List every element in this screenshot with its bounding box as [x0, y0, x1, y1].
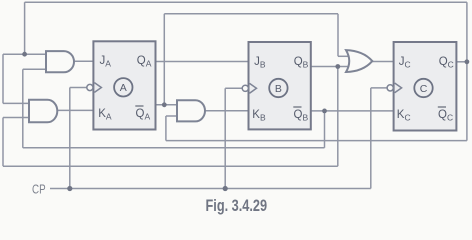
wire Qc right vertical [466, 2, 468, 140]
wire clock B vertical [224, 88, 226, 188]
clock triangle C [395, 83, 402, 93]
clock bubble C [387, 85, 393, 91]
svg-text:C: C [420, 83, 428, 95]
wire AND3 in2 vertical [165, 116, 167, 141]
wire AND2 out to KA [57, 109, 94, 111]
overbar QbarB [293, 106, 301, 108]
overbar QbarA [135, 105, 143, 107]
overbar QbarC [438, 106, 446, 108]
junction node CP-B [223, 186, 228, 191]
wire AND1 in2 vertical [22, 69, 24, 148]
junction node QbarA [162, 102, 167, 107]
svg-text:B: B [275, 83, 282, 95]
wire QbarA up vertical [163, 14, 165, 105]
junction node QB [335, 64, 340, 69]
wire bus166 (QB to AND2 in2) [3, 165, 338, 167]
wire QA to JB [156, 61, 249, 63]
wire node to left edge [3, 53, 25, 55]
wire QbarB to KC [311, 110, 394, 112]
wire clock A vertical [69, 88, 71, 189]
clock triangle B [250, 83, 257, 93]
wire QB down vertical [337, 67, 339, 167]
junction node CP-A [67, 186, 72, 191]
clock bubble A [87, 84, 93, 90]
state circle B [269, 79, 287, 97]
wire top-left vertical to node [24, 2, 26, 54]
wire left edge vertical upper [2, 54, 4, 103]
flip-flop C box [394, 42, 457, 131]
flip-flop A box [93, 41, 155, 129]
junction node QC [465, 59, 470, 64]
wire H1 bus (Qc to AND3 in2) [166, 140, 467, 142]
wire OR in1 vertical [337, 14, 339, 57]
wire AND1 in1 stub [25, 53, 46, 55]
svg-text:CP: CP [32, 182, 46, 197]
state circle A [114, 78, 132, 96]
wire clock A stub [70, 87, 87, 89]
wire QC out [456, 61, 467, 63]
svg-text:Fig. 3.4.29: Fig. 3.4.29 [206, 197, 268, 215]
AND gate G2 (feeds KA) [29, 100, 57, 123]
junction node QbarB [322, 109, 327, 114]
wire AND3 out to KB [205, 110, 249, 112]
wire AND2 in2 stub [3, 117, 29, 119]
state circle C [414, 79, 432, 97]
wire AND3 in2 stub [166, 115, 177, 117]
flip-flop B box [249, 42, 311, 129]
wire left edge vertical lower [2, 118, 4, 167]
AND gate G3 (feeds KB) [177, 100, 205, 121]
OR gate G4 (feeds JC) [346, 50, 372, 72]
wire OR out to JC [372, 61, 393, 63]
wire line2 (QbarA to OR) [164, 13, 338, 15]
wire clock C vertical [370, 88, 372, 189]
wire OR in1 stub [338, 55, 351, 57]
svg-text:A: A [120, 82, 127, 94]
wire clock B stub [225, 87, 242, 89]
wire AND2 in1 stub [3, 102, 29, 104]
wire QB to OR in2 [311, 66, 351, 68]
AND gate G1 (feeds JA) [46, 51, 74, 72]
wire QbarA to AND3 in1 [156, 104, 178, 106]
clock triangle A [94, 83, 101, 93]
clock bubble B [242, 85, 248, 91]
wire QbarB down vertical [324, 111, 326, 148]
junction node AND1 in1 [22, 52, 27, 57]
wire Qc top feedback horizontal [25, 1, 467, 3]
wire CP line [50, 188, 371, 190]
wire H2 bus (QbarB to AND1 in2) [23, 147, 325, 149]
wire clock C stub [371, 87, 387, 89]
wire AND1 in2 stub [23, 68, 46, 70]
wire AND1 out to JA [73, 60, 94, 62]
